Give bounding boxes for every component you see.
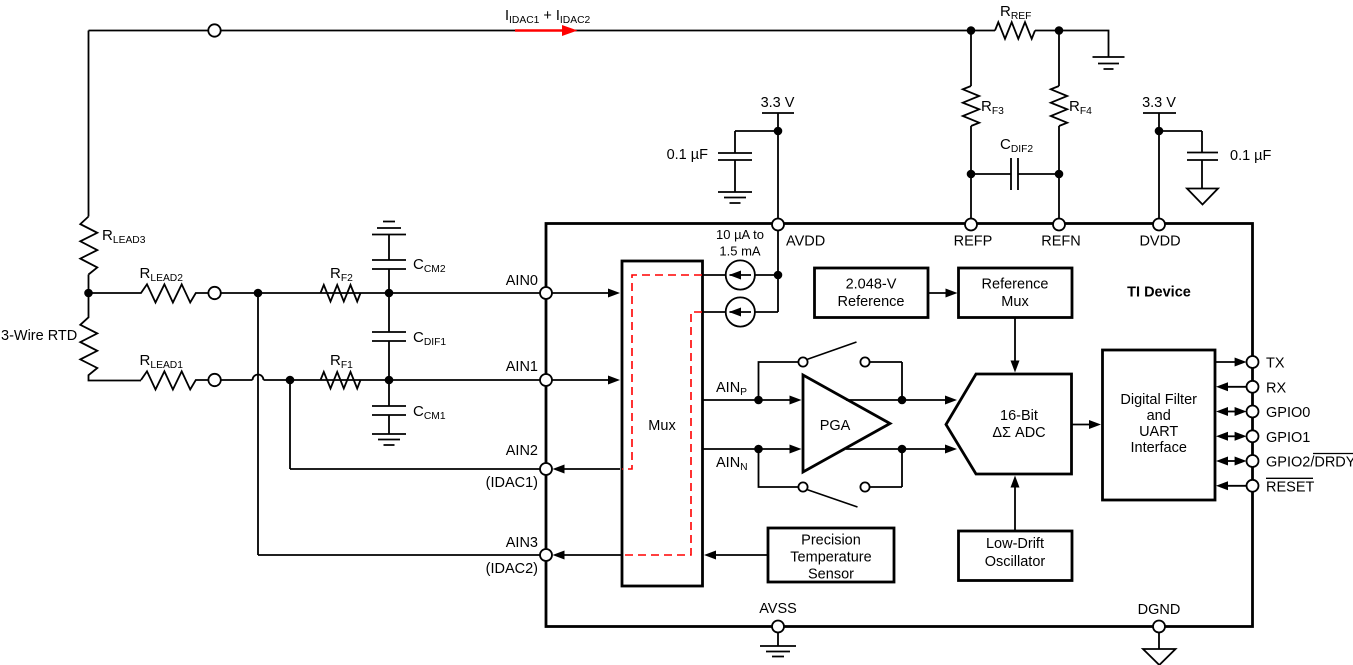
resistor RLEAD3 [80, 217, 97, 294]
svg-text:2.048-V: 2.048-V [846, 277, 897, 293]
node dot AINP [754, 396, 763, 405]
svg-text:DGND: DGND [1138, 602, 1181, 618]
svg-text:Precision: Precision [801, 533, 861, 549]
svg-text:Interface: Interface [1130, 440, 1186, 456]
svg-text:(IDAC1): (IDAC1) [486, 475, 538, 491]
wire bypass switch top [759, 362, 903, 400]
svg-text:0.1 µF: 0.1 µF [667, 147, 709, 163]
resistor RREF [995, 22, 1035, 39]
svg-text:and: and [1147, 408, 1171, 424]
svg-text:Digital Filter: Digital Filter [1120, 392, 1197, 408]
node dot AIN2 branch [286, 376, 295, 385]
resistor RF3 [963, 31, 979, 220]
ground earth AVSS [760, 632, 796, 657]
switch S2 contact right [860, 482, 869, 491]
svg-text:AIN1: AIN1 [506, 359, 538, 375]
box digital filter [1103, 350, 1216, 500]
svg-text:IIDAC1 + IIDAC2: IIDAC1 + IIDAC2 [505, 8, 591, 26]
switch S1 contact left [798, 357, 807, 366]
node open circle on top rail [208, 24, 220, 36]
node dot AINN [754, 445, 763, 454]
node open circle lead2 [208, 287, 220, 299]
arrow oscillator to adc [1014, 487, 1016, 531]
red dashed IDAC1 route [622, 275, 702, 469]
resistor RLEAD2 [89, 284, 541, 302]
red dashed IDAC2 route [622, 312, 702, 555]
switch S2 contact left [798, 482, 807, 491]
node dot REFN top [1055, 26, 1064, 35]
svg-text:RREF: RREF [1000, 3, 1031, 22]
resistor RLEAD1 [141, 371, 253, 389]
arrow adc to digital filter [1072, 424, 1091, 426]
node dot AIN0 branch [254, 289, 263, 298]
svg-text:TI Device: TI Device [1127, 285, 1191, 301]
capacitor CCM2 [372, 260, 406, 293]
box reference mux [959, 268, 1073, 318]
node dot AVDD internal [774, 271, 783, 280]
wire RREF to ground [1035, 31, 1109, 58]
node dot CDIF2 right [1055, 170, 1064, 179]
svg-text:DVDD: DVDD [1139, 234, 1180, 250]
svg-text:AVDD: AVDD [786, 234, 825, 250]
svg-text:Reference: Reference [838, 294, 905, 310]
node dot REFP top [967, 26, 976, 35]
pin AIN3 [540, 549, 552, 561]
wire AINN mux to pga [703, 448, 790, 450]
svg-text:AINN: AINN [716, 455, 748, 473]
svg-text:Low-Drift: Low-Drift [986, 536, 1044, 552]
svg-text:RF3: RF3 [981, 98, 1004, 117]
svg-text:RESET: RESET [1266, 479, 1314, 495]
ground earth top right [1093, 57, 1125, 69]
svg-text:16-Bit: 16-Bit [1000, 408, 1038, 424]
svg-text:RLEAD1: RLEAD1 [140, 352, 184, 371]
svg-text:GPIO0: GPIO0 [1266, 405, 1310, 421]
pin DGND [1153, 621, 1165, 633]
svg-text:UART: UART [1139, 424, 1178, 440]
svg-text:CDIF2: CDIF2 [1000, 136, 1033, 155]
resistor RF4 [1051, 31, 1067, 220]
arrow temp sensor to mux [716, 554, 768, 556]
wire AIN2 out of mux [563, 468, 620, 470]
svg-text:GPIO2/DRDY: GPIO2/DRDY [1266, 455, 1353, 471]
svg-text:Reference: Reference [982, 277, 1049, 293]
svg-text:TX: TX [1266, 356, 1285, 372]
switch S2 blade [807, 490, 858, 508]
pin RX [1226, 386, 1247, 388]
pin RESET [1226, 485, 1247, 487]
node dot AVDD rail [774, 127, 783, 136]
node open circle lead1 [208, 374, 220, 386]
ground mirrored CCM2 [372, 222, 406, 261]
svg-text:3-Wire RTD: 3-Wire RTD [1, 328, 77, 344]
pin TX [1215, 361, 1236, 363]
Mux box [622, 261, 703, 586]
wire AINP mux to pga [703, 399, 790, 401]
svg-text:Sensor: Sensor [808, 567, 854, 583]
svg-text:AIN0: AIN0 [506, 273, 538, 289]
pin REFN [1053, 219, 1065, 231]
svg-text:RF2: RF2 [330, 265, 353, 284]
current source IDAC1 [703, 274, 726, 276]
pin AIN1 [540, 374, 552, 386]
ground earth CCM1 [372, 434, 406, 445]
svg-text:ΔΣ ADC: ΔΣ ADC [992, 425, 1045, 441]
capacitor 0.1uF AVDD [718, 131, 778, 192]
capacitor 0.1uF DVDD [1159, 131, 1218, 189]
ground arrow DGND [1143, 632, 1176, 665]
wire AIN3 drop from AIN0 line [258, 293, 540, 555]
svg-text:0.1 µF: 0.1 µF [1230, 148, 1272, 164]
svg-text:REFN: REFN [1041, 234, 1080, 250]
resistor RTD body [80, 293, 141, 381]
box low-drift oscillator [959, 531, 1073, 581]
node dot pga out top [898, 396, 907, 405]
svg-text:REFP: REFP [954, 234, 993, 250]
wire pga out bottom to adc [846, 448, 946, 450]
svg-text:RLEAD2: RLEAD2 [140, 265, 184, 284]
pin AIN0 [540, 287, 552, 299]
pin GPIO2/DRDY [1226, 460, 1237, 462]
wire AIN1 into mux [552, 379, 608, 381]
box precision temperature sensor [768, 528, 894, 582]
arrow reference to refmux [928, 292, 946, 294]
pin GPIO0 [1226, 411, 1237, 413]
svg-text:Mux: Mux [1001, 294, 1029, 310]
wire AIN2 drop from AIN1 line [290, 380, 540, 469]
current direction red arrow [515, 29, 564, 32]
pin AVSS [772, 621, 784, 633]
svg-text:AIN3: AIN3 [506, 535, 538, 551]
current source IDAC2 [703, 311, 726, 313]
node dot pga out bottom [898, 445, 907, 454]
svg-text:AINP: AINP [716, 380, 747, 398]
wire AIN3 out of mux [563, 554, 621, 556]
ground earth AVDD cap [718, 192, 752, 203]
node dot DVDD rail [1155, 127, 1164, 136]
svg-text:AIN2: AIN2 [506, 443, 538, 459]
svg-text:Temperature: Temperature [790, 550, 871, 566]
svg-text:PGA: PGA [820, 418, 851, 434]
pin AIN2 [540, 463, 552, 475]
svg-text:CDIF1: CDIF1 [413, 329, 446, 348]
switch S1 contact right [860, 357, 869, 366]
svg-text:3.3 V: 3.3 V [1142, 95, 1176, 111]
svg-text:(IDAC2): (IDAC2) [486, 561, 538, 577]
TI device box [546, 224, 1253, 627]
svg-text:RF4: RF4 [1069, 98, 1092, 117]
ADC hexagon [946, 374, 1072, 474]
wire pga out top to adc [846, 399, 946, 401]
svg-text:10 µA to: 10 µA to [716, 227, 764, 242]
pin AVDD [772, 219, 784, 231]
box 2.048-V reference [815, 268, 929, 318]
pin DVDD [1153, 219, 1165, 231]
wire top rail from RTD loop to RREF [89, 31, 996, 217]
svg-text:Oscillator: Oscillator [985, 554, 1046, 570]
node dot CDIF2 left [967, 170, 976, 179]
capacitor CDIF2 [971, 158, 1059, 190]
capacitor CDIF1 [372, 293, 406, 380]
svg-text:Mux: Mux [648, 418, 676, 434]
svg-text:GPIO1: GPIO1 [1266, 430, 1310, 446]
wire bypass switch bottom [759, 449, 903, 487]
wire AIN0 into mux [552, 292, 608, 294]
svg-text:RLEAD3: RLEAD3 [102, 227, 146, 246]
svg-text:RF1: RF1 [330, 352, 353, 371]
capacitor CCM1 [372, 380, 406, 434]
node dot CDIF1 bottom [385, 376, 394, 385]
pin GPIO1 [1226, 435, 1237, 437]
svg-text:AVSS: AVSS [759, 601, 797, 617]
pin REFP [965, 219, 977, 231]
arrow refmux to adc [1014, 318, 1016, 361]
svg-text:CCM1: CCM1 [413, 403, 446, 422]
svg-text:3.3 V: 3.3 V [761, 95, 795, 111]
op-amp PGA [803, 375, 890, 472]
svg-text:1.5 mA: 1.5 mA [719, 244, 761, 259]
svg-text:CCM2: CCM2 [413, 256, 446, 275]
wire hop AIN1 over AIN3 drop [253, 375, 541, 381]
node dot CCM2 [385, 289, 394, 298]
switch S1 blade [807, 342, 857, 360]
svg-text:RX: RX [1266, 380, 1286, 396]
node dot RTD top [84, 289, 93, 298]
ground arrow DVDD cap [1187, 189, 1218, 205]
